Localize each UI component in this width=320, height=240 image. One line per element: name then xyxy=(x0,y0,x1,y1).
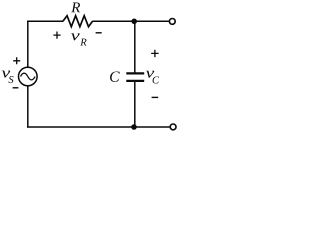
resistor R (zigzag) xyxy=(63,16,93,27)
label C xyxy=(110,71,120,81)
plus sign of source polarity xyxy=(13,57,20,64)
minus sign of vR polarity xyxy=(96,32,102,34)
wire capacitor branch lower xyxy=(134,81,136,127)
label vS xyxy=(2,71,14,83)
wire top-left horizontal (source top corner to resistor) xyxy=(27,20,63,22)
wire top horizontal (resistor right lead to top terminal) xyxy=(92,20,169,22)
label vC xyxy=(146,71,159,84)
plus sign of vC polarity xyxy=(151,50,158,57)
wire left vertical lower (source circle down to bottom corner) xyxy=(27,86,29,128)
plus sign of vR polarity xyxy=(53,32,60,39)
minus sign of vC polarity xyxy=(152,96,159,98)
voltage source vS (AC source circle with sine wave) xyxy=(19,67,38,86)
wire bottom horizontal (bottom corner to bottom terminal) xyxy=(27,126,170,128)
node junction bottom (dot) xyxy=(131,124,137,130)
node junction top (dot) xyxy=(131,19,137,25)
minus sign of source polarity xyxy=(13,87,19,89)
terminal bottom-right (open circle) xyxy=(170,124,176,130)
label R xyxy=(71,2,80,12)
terminal top-right (open circle) xyxy=(169,19,175,25)
capacitor C (two plates) xyxy=(126,73,144,81)
label vR xyxy=(71,33,87,45)
wire capacitor branch upper xyxy=(134,21,136,73)
wire left vertical upper (top corner down to source circle) xyxy=(27,21,29,68)
